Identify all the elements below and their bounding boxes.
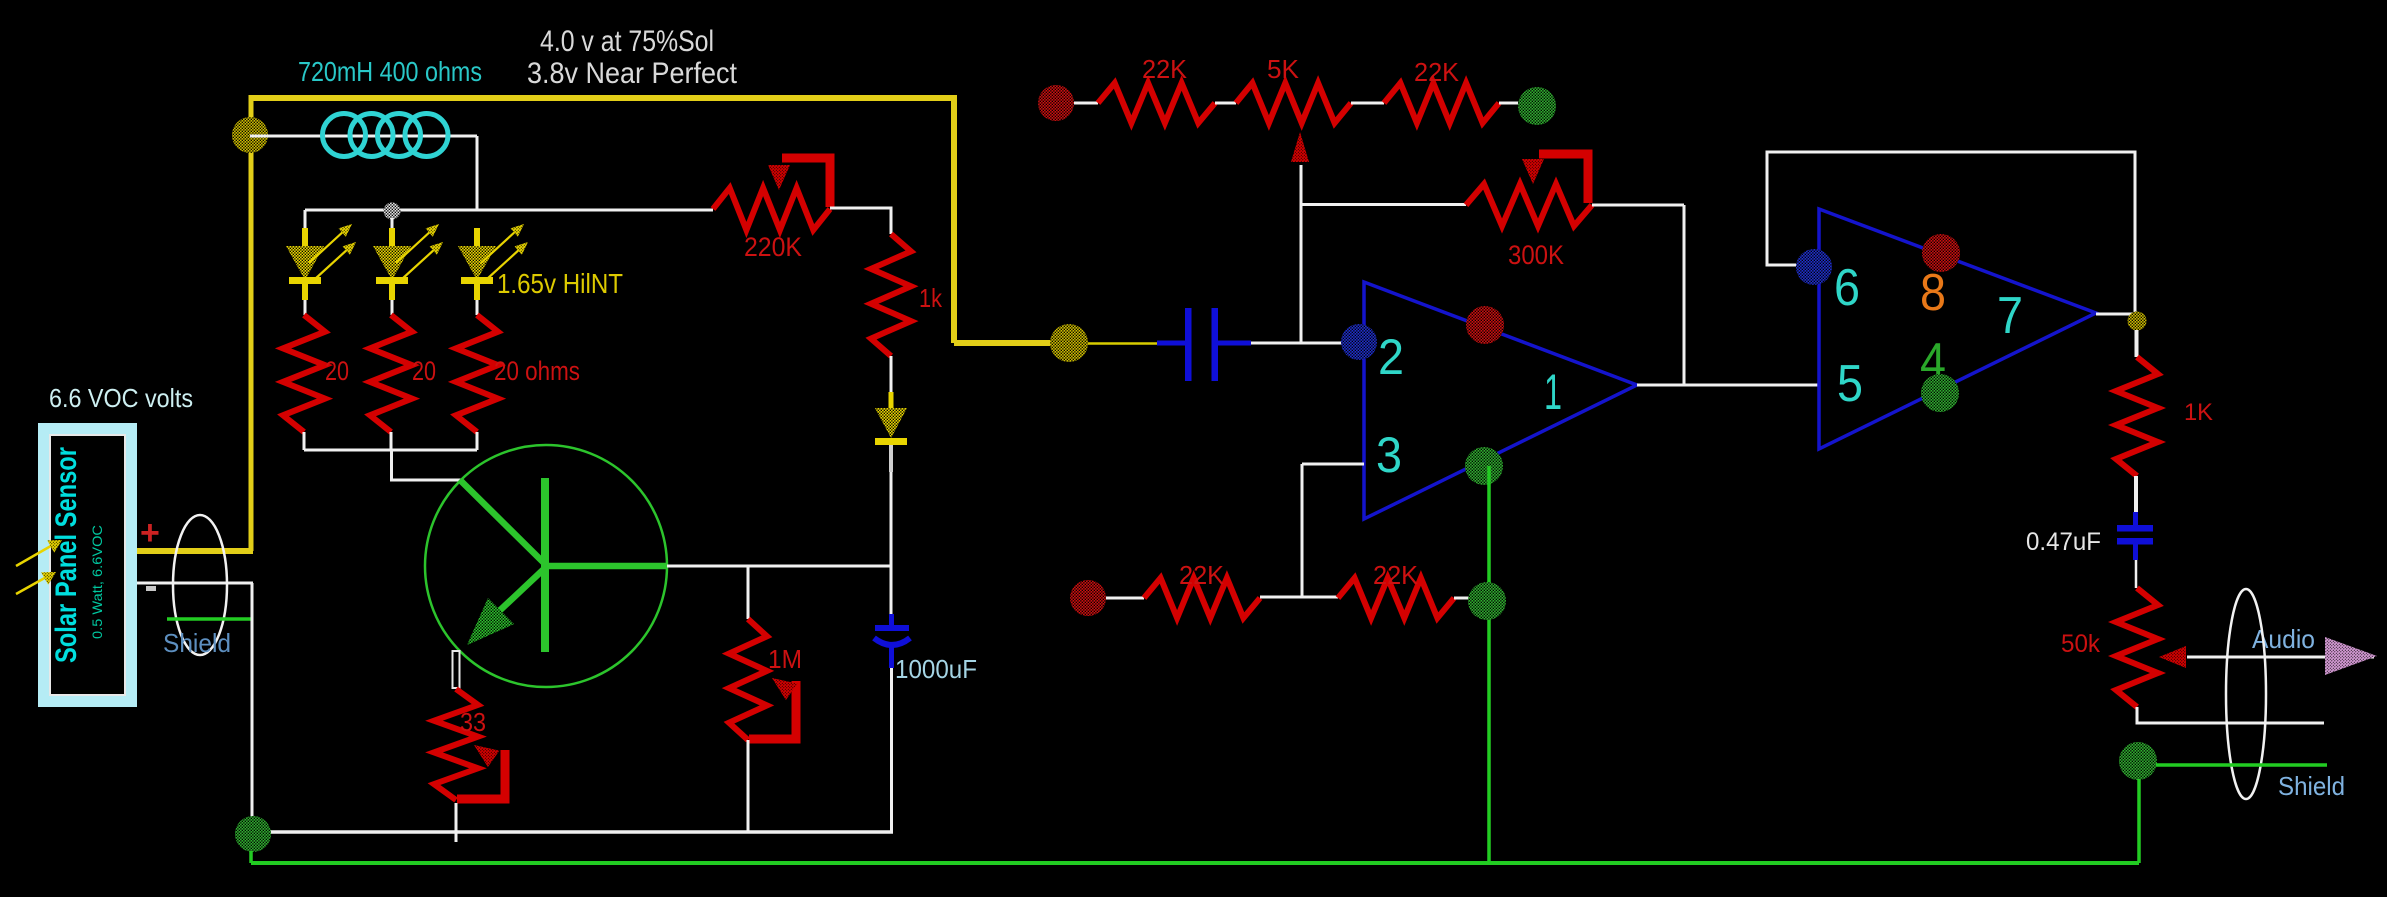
wire: 1M top stub (white) [747,566,750,619]
wire: resistor bottoms bus (white) [304,449,477,452]
wire: node A to LED ladder (white) [250,135,477,138]
svg-text:Shield: Shield [2278,771,2345,801]
capacitor C1 1000uF bottom stub [889,645,894,668]
junction node (white, LED2 top) [384,203,401,220]
potentiometer R9 wiper arrow [1291,132,1309,162]
capacitor C1 1000uF top plate [875,625,909,631]
potentiometer R5 wiper (thick red) [782,158,830,207]
wire: feedback drop (white) [1683,205,1686,385]
svg-text:1k: 1k [919,283,943,313]
potentiometer R7 1M [729,619,767,740]
potentiometer R7 wiper arrow [772,678,797,700]
label R7 value 1M [768,644,802,674]
wire: V+ rail top (yellow) [249,95,957,101]
wire: V+ rail right drop (yellow) [951,98,957,343]
wire: U1 output (white) [1637,384,1819,387]
transistor Q1 collector lead [460,480,545,564]
node F (green, bottom chain right) [1468,582,1506,620]
resistor R2 20 ohms [370,315,412,432]
wire: R9-R10 link (white) [1351,102,1384,105]
label U1 pin 1 [1544,364,1562,420]
wire: node B to C2 (thin yellow) [1088,342,1185,345]
potentiometer R9 5K [1236,83,1351,123]
capacitor C2 right lead (blue) [1218,341,1251,346]
capacitor C1 1000uF top stub [889,614,894,626]
svg-text:300K: 300K [1508,240,1564,270]
transistor Q1 emitter arrow [467,598,514,645]
sun ray arrow 1 [16,540,62,566]
node E (red, bottom chain left) [1070,580,1106,616]
node B (yellow, signal tap) [1050,324,1088,362]
svg-text:22K: 22K [1414,57,1460,87]
label U2 pin 4 [1920,333,1946,391]
wire: panel - down to ground node (white) [251,583,254,818]
ground node (green, left) [235,816,271,852]
wire: node C stub (white) [1074,102,1098,105]
svg-text:5: 5 [1837,355,1863,413]
wire: U2 feedback top (white) [1767,152,2135,321]
wire: R12-R13 link (white) [1260,596,1338,599]
label R3 value 20 ohms [494,356,580,386]
svg-text:1: 1 [1544,364,1562,420]
label 3.8v Near Perfect [527,57,738,90]
wire: Q1 base to cap junction (white) [667,565,891,568]
inductor L1 720mH [323,114,449,157]
label - terminal [146,586,156,591]
label U2 pin 6 [1834,259,1860,317]
svg-text:3: 3 [1376,427,1402,483]
rheostat R4 wiper wire (thick red) [457,750,505,799]
svg-text:8: 8 [1920,264,1946,322]
solar panel sensor box frame [38,423,137,707]
node A (yellow, V+ tap) [232,117,268,153]
node on U2 top edge (red) [1922,234,1960,272]
label U2 pin 7 [1997,287,2023,345]
potentiometer R15 50k [2116,588,2158,707]
svg-text:22K: 22K [1142,54,1188,84]
node on U1 top edge (red, pin 8) [1466,306,1504,344]
transistor Q1 emitter lead [495,568,545,615]
wire: panel + to V rail (yellow) [137,548,253,554]
wire: R13 to node F (white) [1454,597,1469,600]
svg-text:220K: 220K [744,232,802,262]
label R15 value 50k [2061,630,2100,658]
capacitor C3 bottom plate [2117,538,2153,545]
wire: C1 to ground bus (white) [890,668,893,832]
resistor R4 33 ohms [434,689,478,800]
wire: diode to emitter-follower junction (white) [890,472,893,614]
svg-text:22K: 22K [1373,560,1419,590]
LED D3 (photodiode) [458,224,528,315]
node at U1 pin 2 (blue) [1341,324,1377,360]
node C (red, chain left) [1038,85,1074,121]
label 720mH 400 ohms [298,56,482,87]
capacitor C3 top stub (blue) [2133,512,2138,526]
transistor Q1 base bar [541,478,549,652]
wire: node E stub (white) [1106,597,1144,600]
potentiometer R11 300K [1466,184,1592,226]
LED D2 (photodiode) [373,224,443,315]
audio output arrow (plum) [2325,637,2377,675]
svg-text:720mH 400 ohms: 720mH 400 ohms [298,56,482,87]
sun ray arrow 2 [16,572,56,594]
svg-text:5K: 5K [1267,54,1300,84]
label R8 value 22K [1142,54,1188,84]
svg-text:1M: 1M [768,644,802,674]
wire: LED bus horizontal (white) [305,209,713,212]
label R13 value 22K [1373,560,1419,590]
potentiometer R5 wiper arrow [768,165,790,190]
label U1 pin 2 [1378,329,1404,385]
rheostat R4 wiper arrow [474,745,499,767]
wire: bus drop to collector (white) [392,450,462,480]
potentiometer R11 wiper arrow [1522,159,1544,184]
potentiometer R5 220K [713,188,830,230]
label R2 value 20 [412,356,436,386]
wire: wiper junction to 300K (white) [1301,203,1466,206]
wire: node H to ground bus (green) [2137,779,2141,863]
svg-text:20 ohms: 20 ohms [494,356,580,386]
shield loop ellipse (right) [2226,589,2266,799]
wire: node G to 1K (white) [2135,330,2139,357]
potentiometer R7 wiper (thick red) [749,681,796,739]
svg-text:1000uF: 1000uF [895,654,977,684]
diode D4 cathode bar [875,438,907,445]
label U2 pin 8 [1920,264,1946,322]
wire: 1K to C3 (white) [2134,476,2138,513]
label R4 value 33 [460,707,486,737]
label + terminal [140,514,160,552]
wire: 300K to feedback drop (white) [1592,204,1684,207]
wire: LED2 drop (white) [391,218,394,230]
node D (green, chain right) [1518,87,1556,125]
label C3 value 0.47uF [2026,528,2101,556]
wire: R3 stub down (white) [476,432,479,450]
wire: C3 to 50k (white) [2135,560,2138,588]
wire: 50k bottom (white) [2137,707,2324,723]
label Shield (right) [2278,771,2345,801]
label R10 value 22K [1414,57,1460,87]
resistor R10 22K [1384,83,1499,123]
diode D4 anode stub [889,392,894,409]
wire: ground bus (white) [256,830,893,834]
label U1 pin 3 [1376,427,1402,483]
svg-text:0.5 Watt, 6.6VOC: 0.5 Watt, 6.6VOC [89,525,105,639]
svg-text:Shield: Shield [163,628,231,658]
label R11 value 300K [1508,240,1564,270]
svg-text:+: + [140,514,160,552]
transistor Q1 base lead [546,563,667,570]
LED D1 (photodiode) [286,224,356,315]
wire: 5K wiper down (white) [1300,165,1303,343]
wire: R10 to node D (white) [1499,102,1518,105]
wire: LED1 drop (white) [304,210,307,230]
wire: R15 wiper to audio (white) [2187,656,2374,659]
svg-text:2: 2 [1378,329,1404,385]
svg-text:Solar Panel Sensor: Solar Panel Sensor [50,447,83,663]
wire: U1 pin4 to ground (green) [1487,466,1491,863]
wire: R8-R9 link (white) [1215,102,1236,105]
potentiometer R15 wiper arrow [2159,646,2186,668]
wire: ground node riser (green) [249,851,253,863]
wire: inductor to LED3 top (white) [476,136,479,211]
label R12 value 22K [1179,560,1225,590]
svg-text:33: 33 [460,707,486,737]
resistor R8 22K [1098,83,1215,123]
svg-text:50k: 50k [2061,630,2100,658]
wire: 220K to 1k corner (white) [830,208,891,234]
resistor R3 20 ohms [456,315,498,432]
svg-text:3.8v Near Perfect: 3.8v Near Perfect [527,57,738,90]
label R14 value 1K [2184,399,2213,426]
diode D4 cathode stub (gray) [889,445,893,472]
wire: V+ rail left drop (yellow) [249,95,254,551]
wire: R4 to ground bus (white) [455,803,458,842]
label R9 value 5K [1267,54,1300,84]
resistor R14 1K [2116,357,2158,476]
svg-text:0.47uF: 0.47uF [2026,528,2101,556]
label 4.0 v at 75%Sol [540,25,714,58]
capacitor C2 right plate [1212,308,1219,381]
label R1 value 20 [325,356,349,386]
transistor Q1 emitter stub (white box) [453,651,460,688]
node at U2 pin 6 (blue) [1796,249,1832,285]
wire: shield line (green, right) [2156,763,2327,767]
svg-text:7: 7 [1997,287,2023,345]
resistor R13 22K [1338,578,1454,618]
svg-text:20: 20 [325,356,349,386]
op-amp U1 triangle [1364,282,1637,519]
wire: panel - lead (white) [137,582,253,585]
resistor R12 22K [1144,578,1260,618]
node H (green, output ground) [2119,742,2157,780]
label R5 value 220K [744,232,802,262]
capacitor C1 1000uF bottom plate [874,638,910,645]
solar panel sensor box title [50,447,83,663]
wire: ground bus (green) [251,861,2139,865]
node on U1 bottom edge (green, pin 4) [1465,447,1503,485]
wire: R2 stub down (white) [390,432,393,450]
capacitor C3 top plate [2117,525,2153,532]
solar panel sensor box subtitle [89,525,105,639]
wire: shield drain (green, left) [167,617,252,621]
wire: U1 pin3 drop (white) [1301,464,1304,597]
wire: U1 pin3 stub (white) [1302,463,1364,466]
label Shield (left) [163,628,231,658]
potentiometer R11 wiper (thick red) [1539,154,1588,203]
label 1.65v HilNT [497,268,623,299]
label U2 pin 5 [1837,355,1863,413]
capacitor C3 bottom stub (blue) [2133,544,2138,560]
wire: R1 stub down (white) [303,432,306,450]
label Audio [2252,624,2315,654]
label 6.6 VOC volts [49,383,193,413]
svg-text:1.65v HilNT: 1.65v HilNT [497,268,623,299]
wire: 1M bottom stub (white) [747,740,750,832]
transistor Q1 circle [425,445,667,687]
label R6 value 1k [919,283,943,313]
shield loop ellipse (left) [173,515,227,655]
wire: U2 output (white) [2096,313,2136,316]
resistor R6 1k [871,234,911,356]
capacitor C2 left plate [1185,308,1192,381]
resistor R1 20 ohms [283,315,325,432]
diode D4 triangle [875,408,907,438]
label C1 value 1000uF [895,654,977,684]
wire: V+ to coupling node (yellow) [954,340,1052,346]
svg-text:6.6 VOC volts: 6.6 VOC volts [49,383,193,413]
wire: C2 to op-amp pin 2 (white) [1251,342,1363,345]
capacitor C2 left lead (blue) [1157,341,1186,346]
node on U2 bottom edge (green) [1921,374,1959,412]
svg-text:4.0 v at 75%Sol: 4.0 v at 75%Sol [540,25,714,58]
wire: 1k to diode (white) [890,356,893,393]
op-amp U2 triangle [1819,209,2096,449]
svg-text:1K: 1K [2184,399,2213,426]
svg-text:20: 20 [412,356,436,386]
svg-text:6: 6 [1834,259,1860,317]
svg-text:22K: 22K [1179,560,1225,590]
node G (yellow, U2 output) [2128,312,2147,331]
